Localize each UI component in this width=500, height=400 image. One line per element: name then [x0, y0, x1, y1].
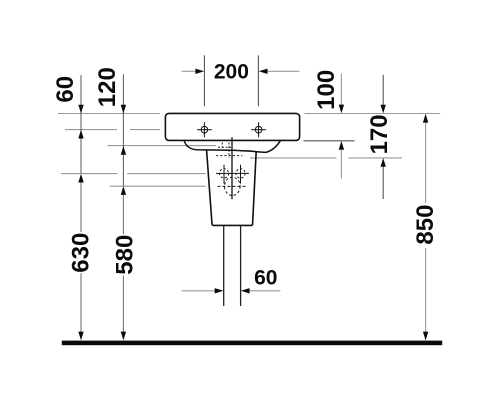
hidden screw hole right — [233, 165, 249, 184]
hidden outlet line — [218, 185, 248, 187]
dimension 60 bottom left arrow — [182, 290, 216, 292]
svg-text:170: 170 — [366, 114, 393, 154]
reference line 120 — [108, 145, 216, 147]
hidden siphon oval — [225, 177, 241, 195]
dimension 120 line — [122, 74, 124, 186]
drain pipe right edge — [240, 226, 242, 306]
reference line holes-60 — [65, 129, 160, 131]
reference line 580 — [110, 185, 206, 187]
drain pipe left edge — [223, 226, 225, 306]
dimension 60 bottom right arrow — [241, 288, 250, 293]
svg-text:100: 100 — [313, 70, 340, 110]
svg-text:630: 630 — [67, 233, 94, 273]
basin rim outline — [165, 113, 299, 140]
dimension 200 right arrow — [259, 69, 268, 74]
svg-text:200: 200 — [214, 60, 249, 83]
dimension 630 line — [80, 182, 82, 332]
dimension 850 line — [425, 122, 427, 331]
reference line basin-bottom-right — [304, 140, 355, 142]
reference line rim-left — [58, 113, 160, 115]
reference line 170-bottom — [250, 157, 402, 159]
floor line — [62, 341, 442, 346]
dimension 100 line — [340, 74, 342, 106]
svg-text:60: 60 — [254, 267, 277, 290]
reference line 630 — [61, 173, 206, 175]
dimension 580 line — [122, 195, 124, 332]
pedestal outline — [207, 150, 257, 225]
svg-text:580: 580 — [112, 235, 139, 275]
hidden overflow detail upper — [216, 143, 252, 158]
svg-text:120: 120 — [94, 67, 121, 107]
dimension 200 extension lines — [203, 55, 205, 106]
hidden screw hole left — [216, 165, 232, 184]
svg-text:60: 60 — [52, 76, 79, 103]
apron under basin — [184, 141, 280, 153]
centerline — [231, 137, 233, 199]
fixing hole left — [197, 122, 212, 137]
reference line rim-right — [305, 113, 441, 115]
dimension 170 line — [382, 75, 384, 105]
dimension 60 left line — [80, 75, 82, 173]
svg-text:850: 850 — [412, 205, 439, 245]
fixing hole right — [251, 122, 266, 137]
dimension 200 left arrow — [182, 70, 197, 72]
